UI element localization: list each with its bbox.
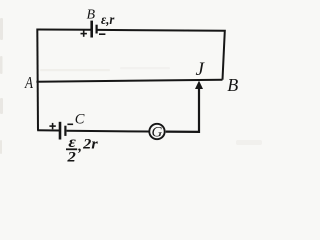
svg-text:G: G [152,125,163,141]
svg-text:C: C [75,111,85,127]
svg-text:B: B [87,8,96,23]
svg-text:A: A [24,73,34,92]
svg-text:2: 2 [66,150,76,166]
svg-text:B: B [227,75,238,95]
svg-text:,: , [77,138,82,154]
svg-text:ε,r: ε,r [101,12,115,27]
svg-text:2r: 2r [82,137,98,153]
